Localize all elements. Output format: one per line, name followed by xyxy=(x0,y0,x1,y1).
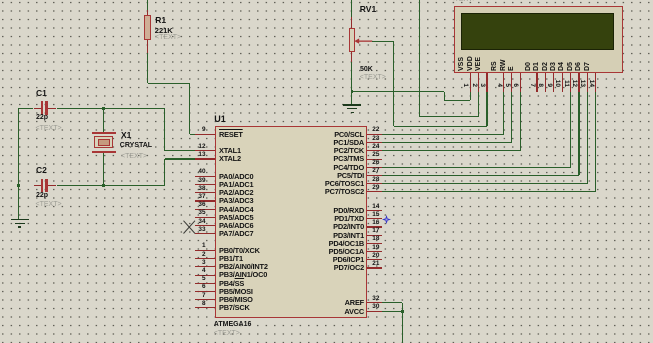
U1 pin number 23 xyxy=(372,136,392,142)
U1 left pin 2 stub xyxy=(195,258,215,259)
U1 pin name PC4/TDO xyxy=(264,164,364,171)
U1 pin number 16 xyxy=(372,220,392,226)
U1 right pin 18 stub xyxy=(367,243,382,244)
U1 pin number 29 xyxy=(372,185,392,191)
U1 left pin 6 stub xyxy=(195,291,215,292)
U1 pin number 32 xyxy=(372,296,392,302)
U1 left pin 38 stub xyxy=(195,192,215,193)
U1 pin number 14 xyxy=(372,204,392,210)
ground symbol RV1 xyxy=(343,104,361,106)
capacitor C1 property text xyxy=(36,125,62,132)
LCD pin 13 stub xyxy=(587,73,588,91)
U1 pin number 37 xyxy=(186,194,206,200)
LCD pin 3 number label xyxy=(477,74,485,87)
U1 left pin 35 stub xyxy=(195,217,215,218)
U1 pin number 34 xyxy=(186,219,206,225)
U1 left pin 34 stub xyxy=(195,225,215,226)
U1 pin name PC2/TCK xyxy=(264,147,364,154)
LCD pin 12 number label xyxy=(569,74,577,87)
wire PC6 pin28 to LCD D6 xyxy=(0,0,1,1)
LCD pin 12 name label D5 xyxy=(567,49,575,71)
U1 pin number 38 xyxy=(186,186,206,192)
potentiometer RV1 top lead xyxy=(351,0,352,17)
U1 left pin 5 stub xyxy=(195,283,215,284)
U1 pin name AREF xyxy=(264,299,364,306)
wire VSS to ground xyxy=(0,0,1,1)
LCD pin 4 name label RS xyxy=(491,49,499,71)
crystal X1 top plate xyxy=(92,132,116,134)
U1 pin number 40 xyxy=(186,169,206,175)
potentiometer RV1 body xyxy=(349,28,355,53)
U1 pin number 7 xyxy=(186,293,206,299)
U1 pin number 33 xyxy=(186,227,206,233)
U1 pin number 6 xyxy=(186,284,206,290)
LCD pin 6 name label E xyxy=(508,49,516,71)
crystal X1 body xyxy=(94,136,113,149)
LCD pin 8 stub xyxy=(545,73,546,91)
LCD pin 5 name label RW xyxy=(500,49,508,71)
junction C2 rail left node xyxy=(17,184,20,187)
wire PC4 pin26 to LCD D4 xyxy=(0,0,1,1)
U1 pin number 1 xyxy=(186,243,206,249)
U1 left pin 8 stub xyxy=(195,307,215,308)
U1 pin name PC3/TMS xyxy=(264,155,364,162)
resistor R1 value label 221K xyxy=(155,27,173,35)
microcontroller U1 property text xyxy=(214,330,240,337)
U1 left pin 37 stub xyxy=(195,200,215,201)
capacitor C1 right lead xyxy=(48,108,57,109)
U1 pin number 25 xyxy=(372,152,392,158)
U1 pin name PB1/T1 xyxy=(219,255,243,262)
LCD pin 14 stub xyxy=(595,73,596,91)
LCD pin 8 number label xyxy=(535,74,543,87)
U1 pin number 2 xyxy=(186,252,206,258)
U1 pin name PB3/AIN1/OC0 xyxy=(219,271,267,278)
U1 pin number 13 xyxy=(186,152,206,158)
capacitor C1 plates xyxy=(41,101,43,115)
U1 pin number 36 xyxy=(186,202,206,208)
U1 left pin 1 stub xyxy=(195,250,215,251)
microcontroller U1 body xyxy=(215,126,367,318)
U1 left pin 3 stub xyxy=(195,266,215,267)
LCD pin 11 stub xyxy=(570,73,571,91)
wire PC2 pin24 to LCD E xyxy=(0,0,1,1)
U1 pin number 19 xyxy=(372,245,392,251)
U1 pin number 28 xyxy=(372,177,392,183)
U1 pin number 22 xyxy=(372,127,392,133)
LCD pin 11 name label D4 xyxy=(558,49,566,71)
LCD pin 11 number label xyxy=(561,74,569,87)
U1 left pin 39 stub xyxy=(195,184,215,185)
U1 pin name PB7/SCK xyxy=(219,304,250,311)
LCD pin 10 number label xyxy=(552,74,560,87)
capacitor C1 value label 22p xyxy=(36,114,48,121)
junction VSS ground node xyxy=(351,90,354,93)
capacitor C2 right lead xyxy=(48,185,57,186)
wire XTAL2 rail C2 to crystal bottom xyxy=(0,0,1,1)
U1 pin number 15 xyxy=(372,212,392,218)
U1 pin number 3 xyxy=(186,260,206,266)
wire AREF down xyxy=(0,0,1,1)
U1 pin number 17 xyxy=(372,228,392,234)
potentiometer RV1 bottom lead xyxy=(351,52,352,62)
LCD pin 13 name label D6 xyxy=(575,49,583,71)
U1 left pin 33 stub xyxy=(195,233,215,234)
resistor R1 property text xyxy=(155,34,181,41)
LCD property text (clipped at top) xyxy=(451,0,477,3)
LCD pin 5 stub xyxy=(511,73,512,91)
U1 pin name PD0/RXD xyxy=(264,207,364,214)
resistor R1 reference label xyxy=(155,16,166,25)
U1 pin number 21 xyxy=(372,261,392,267)
U1 pin name PC6/TOSC1 xyxy=(264,180,364,187)
wire crystal bottom lead xyxy=(0,0,1,1)
resistor R1 body xyxy=(144,15,151,40)
U1 left pin 13 stub xyxy=(195,158,215,159)
U1 pin name PD5/OC1A xyxy=(264,248,364,255)
U1 pin name PB6/MISO xyxy=(219,296,253,303)
U1 pin number 35 xyxy=(186,210,206,216)
U1 right pin 32 stub xyxy=(367,302,382,303)
LCD pin 12 stub xyxy=(578,73,579,91)
wire AVCC join xyxy=(0,0,1,1)
U1 left pin 9 stub xyxy=(195,134,215,135)
capacitor C2 property text xyxy=(36,201,62,208)
LCD display LM016L body xyxy=(454,6,623,74)
LCD pin 9 name label D2 xyxy=(542,49,550,71)
U1 pin name PB0/T0/XCK xyxy=(219,247,260,254)
wire PC5 pin27 to LCD D5 xyxy=(0,0,1,1)
LCD pin 9 number label xyxy=(544,74,552,87)
LCD pin 10 stub xyxy=(562,73,563,91)
resistor R1 top lead xyxy=(147,0,148,10)
wire left ground rail xyxy=(0,0,1,1)
U1 right pin 27 stub xyxy=(367,175,382,176)
wire PC7 pin29 to LCD D7 xyxy=(0,0,1,1)
LCD pin 2 name label VDD xyxy=(467,49,475,71)
LCD pin 5 number label xyxy=(502,74,510,87)
U1 pin name PC0/SCL xyxy=(264,131,364,138)
LCD pin 6 stub xyxy=(520,73,521,91)
LCD pin 4 number label xyxy=(494,74,502,87)
U1 pin name PD7/OC2 xyxy=(264,264,364,271)
U1 pin number 8 xyxy=(186,301,206,307)
U1 right pin 26 stub xyxy=(367,167,382,168)
U1 pin name PA3/ADC3 xyxy=(219,197,253,204)
U1 pin name PB4/SS xyxy=(219,280,244,287)
wire PC0 pin22 to LCD RS xyxy=(0,0,1,1)
U1 right pin 30 stub xyxy=(367,311,382,312)
LCD pin 10 name label D3 xyxy=(550,49,558,71)
U1 right pin 25 stub xyxy=(367,159,382,160)
junction AVCC node xyxy=(401,310,404,313)
U1 pin name PD3/INT1 xyxy=(264,232,364,239)
U1 left pin 4 stub xyxy=(195,275,215,276)
U1 pin name PA4/ADC4 xyxy=(219,206,253,213)
U1 pin number 26 xyxy=(372,160,392,166)
LCD pin 9 stub xyxy=(553,73,554,91)
U1 pin number 4 xyxy=(186,268,206,274)
LCD pin 4 stub xyxy=(503,73,504,91)
LCD pin 6 number label xyxy=(510,74,518,87)
U1 right pin 29 stub xyxy=(367,191,382,192)
U1 pin name XTAL2 xyxy=(219,155,241,162)
capacitor C2 value label 22p xyxy=(36,192,48,199)
no-connect X mark near PA6 xyxy=(183,220,196,234)
capacitor C1 left lead xyxy=(34,108,42,109)
LCD pin 1 name label VSS xyxy=(458,49,466,71)
U1 right pin 20 stub xyxy=(367,259,382,260)
potentiometer RV1 property text xyxy=(360,74,386,81)
U1 right pin 17 stub xyxy=(367,235,382,236)
wire RV1 wiper to VEE xyxy=(0,0,1,1)
U1 pin name PA0/ADC0 xyxy=(219,173,253,180)
U1 right pin 19 stub xyxy=(367,251,382,252)
U1 pin number 27 xyxy=(372,168,392,174)
wire PC1 pin23 to LCD RW xyxy=(0,0,1,1)
LCD pin 7 stub xyxy=(536,73,537,91)
wire VDD supply vertical xyxy=(0,0,1,1)
LCD pin 7 name label D0 xyxy=(525,49,533,71)
U1 right pin 22 stub xyxy=(367,134,382,135)
LCD display screen xyxy=(461,13,614,51)
U1 pin name PA7/ADC7 xyxy=(219,230,253,237)
wire crystal top lead xyxy=(0,0,1,1)
U1 pin name PA1/ADC1 xyxy=(219,181,253,188)
U1 right pin 14 stub xyxy=(367,210,382,211)
U1 pin name PC7/TOSC2 xyxy=(264,188,364,195)
LCD pin 13 number label xyxy=(577,74,585,87)
U1 pin name PB5/MOSI xyxy=(219,288,253,295)
LCD pin 8 name label D1 xyxy=(533,49,541,71)
potentiometer RV1 reference label xyxy=(360,5,376,14)
U1 left pin 36 stub xyxy=(195,209,215,210)
LCD pin 2 stub xyxy=(478,73,479,91)
LCD pin 3 stub xyxy=(486,73,487,91)
U1 pin name PD2/INT0 xyxy=(264,223,364,230)
U1 pin number 20 xyxy=(372,253,392,259)
U1 left pin 40 stub xyxy=(195,176,215,177)
U1 pin name PB2/AIN0/INT2 xyxy=(219,263,268,270)
crystal X1 reference label xyxy=(121,131,131,140)
LCD pin 7 number label xyxy=(527,74,535,87)
U1 pin name AVCC xyxy=(264,308,364,315)
U1 left pin 7 stub xyxy=(195,299,215,300)
ground symbol left xyxy=(11,219,29,221)
resistor R1 bottom lead xyxy=(147,40,148,54)
U1 right pin 15 stub xyxy=(367,218,382,219)
capacitor C2 reference label xyxy=(36,166,47,175)
U1 pin name PC5/TDI xyxy=(264,172,364,179)
U1 left pin 12 stub xyxy=(195,150,215,151)
crystal X1 bottom plate xyxy=(92,151,116,153)
LCD pin 3 name label VEE xyxy=(475,49,483,71)
junction crystal bottom node xyxy=(102,184,105,187)
U1 pin number 39 xyxy=(186,178,206,184)
capacitor C1 reference label xyxy=(36,89,47,98)
LCD pin 1 number label xyxy=(460,74,468,87)
U1 pin name PA6/ADC6 xyxy=(219,222,253,229)
U1 pin number 18 xyxy=(372,236,392,242)
crystal X1 property text xyxy=(121,153,147,160)
microcontroller U1 value label ATMEGA16 xyxy=(214,321,252,328)
junction crystal top node xyxy=(102,107,105,110)
LCD pin 2 number label xyxy=(469,74,477,87)
LCD pin 14 name label D7 xyxy=(584,49,592,71)
U1 pin name RESET xyxy=(219,131,243,138)
U1 pin number 9 xyxy=(186,127,206,133)
U1 pin name PD1/TXD xyxy=(264,215,364,222)
LCD pin 1 stub xyxy=(470,73,471,91)
wire XTAL1 rail C1 to crystal top xyxy=(0,0,1,1)
U1 pin number 5 xyxy=(186,276,206,282)
U1 pin name PC1/SDA xyxy=(264,139,364,146)
U1 pin name PA5/ADC5 xyxy=(219,214,253,221)
U1 right pin 28 stub xyxy=(367,183,382,184)
U1 pin name PA2/ADC2 xyxy=(219,189,253,196)
capacitor C2 plates xyxy=(41,179,43,193)
U1 pin name XTAL1 xyxy=(219,147,241,154)
U1 pin number 30 xyxy=(372,304,392,310)
U1 pin name PD4/OC1B xyxy=(264,240,364,247)
crystal X1 value label CRYSTAL xyxy=(120,142,152,149)
U1 right pin 16 stub xyxy=(367,226,382,227)
blue cursor marker near pin 16 xyxy=(382,215,391,224)
capacitor C2 left lead xyxy=(34,185,42,186)
microcontroller U1 reference label xyxy=(214,115,226,124)
U1 right pin 24 stub xyxy=(367,150,382,151)
potentiometer RV1 wiper arrow xyxy=(354,37,373,46)
U1 pin name PD6/ICP1 xyxy=(264,256,364,263)
LCD pin 14 number label xyxy=(586,74,594,87)
wire R1 to RESET pin 9 xyxy=(0,0,1,1)
U1 right pin 23 stub xyxy=(367,142,382,143)
potentiometer RV1 value label 50K xyxy=(360,66,373,73)
U1 right pin 21 stub xyxy=(367,267,382,268)
U1 pin number 12 xyxy=(186,144,206,150)
U1 pin number 24 xyxy=(372,144,392,150)
